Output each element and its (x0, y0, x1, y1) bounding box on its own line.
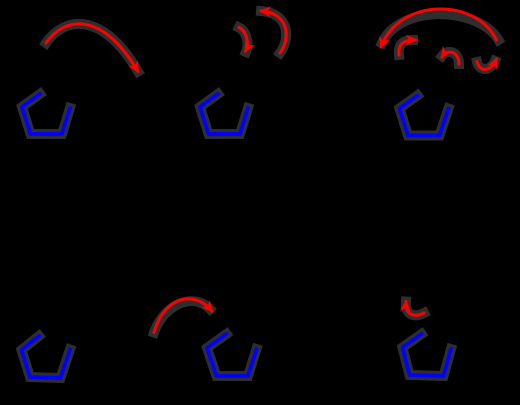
curved arrow A4 (154, 299, 212, 333)
cyclopentadiene ring 5 (blue highlight) (207, 334, 257, 376)
small curved arrow A3a (399, 40, 416, 55)
cyclopentadiene ring 2 (blue highlight) (200, 94, 248, 134)
small curved arrow A3b (442, 52, 459, 64)
cyclopentadiene ring 1 (blue highlight) (22, 94, 70, 134)
cyclopentadiene ring 3 (blue highlight) (400, 96, 449, 136)
small curved arrow A3c (477, 59, 497, 69)
curved arrow A2a (239, 28, 247, 52)
cyclopentadiene ring 4 (blue highlight) (22, 336, 71, 378)
big curved arrow A3 (381, 9, 497, 47)
curved arrow A5 (406, 302, 424, 316)
cyclopentadiene ring 6 (blue highlight) (403, 334, 452, 376)
curved arrow A1 (46, 24, 138, 72)
curved arrow A2b (261, 11, 286, 53)
